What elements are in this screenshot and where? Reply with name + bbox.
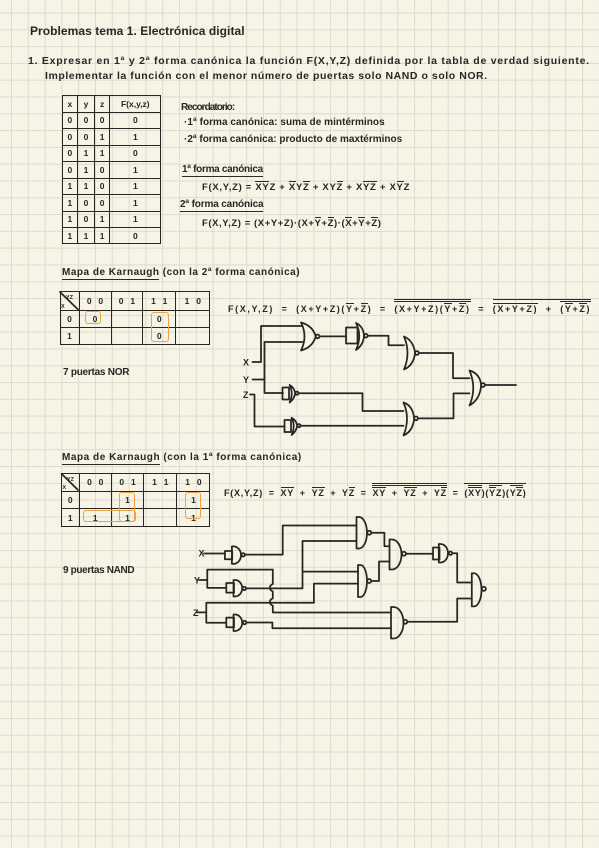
svg-text:YZ: YZ: [66, 295, 74, 301]
svg-text:X: X: [61, 304, 65, 310]
svg-text:YZ: YZ: [67, 477, 75, 483]
svg-text:X: X: [243, 358, 249, 368]
svg-text:Y: Y: [243, 375, 249, 385]
svg-text:Z: Z: [243, 390, 249, 400]
svg-text:X: X: [63, 485, 67, 491]
